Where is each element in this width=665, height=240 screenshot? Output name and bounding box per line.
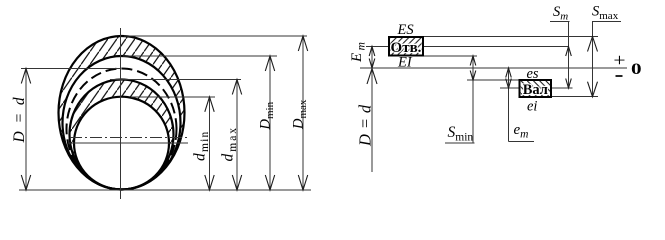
svg-text:ES: ES (397, 22, 415, 38)
svg-text:EI: EI (397, 55, 413, 71)
svg-text:D = d: D = d (356, 104, 375, 147)
svg-text:es: es (527, 66, 539, 82)
svg-text:Вал: Вал (523, 82, 548, 98)
svg-text:Sm: Sm (553, 4, 568, 23)
svg-text:Smin: Smin (448, 124, 474, 144)
svg-text:ei: ei (527, 99, 537, 115)
svg-text:dmin: dmin (192, 131, 212, 161)
svg-text:em: em (514, 122, 529, 141)
svg-text:Dmin: Dmin (258, 101, 277, 130)
svg-text:dmax: dmax (220, 126, 240, 162)
svg-text:Dmax: Dmax (291, 99, 310, 130)
svg-text:Em: Em (349, 40, 368, 63)
svg-text:D = d: D = d (11, 95, 28, 143)
svg-text:Smax: Smax (592, 4, 619, 23)
svg-text:0: 0 (631, 60, 642, 78)
svg-text:+: + (613, 51, 625, 71)
